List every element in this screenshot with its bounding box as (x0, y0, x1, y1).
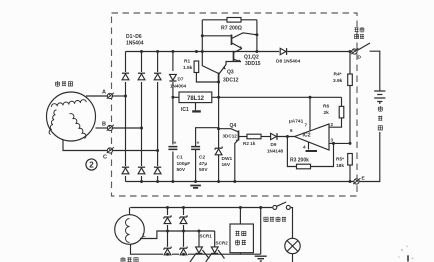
svg-text:R6: R6 (323, 104, 329, 110)
lamp (285, 238, 300, 262)
resistor R2 (247, 134, 261, 139)
diode D6 (153, 166, 162, 176)
wire B+ top rail (126, 51, 350, 53)
node R5 ground rail (349, 180, 352, 183)
wire R5 bottom (349, 165, 351, 182)
svg-text:B: B (102, 122, 106, 128)
svg-text:R1: R1 (184, 59, 190, 65)
resistor R6 (339, 106, 344, 118)
diode DL4 (179, 247, 188, 257)
wire R3 loop (287, 137, 333, 167)
node return leg2 (182, 253, 185, 256)
node ground drop (259, 206, 262, 209)
node R7 left base (201, 34, 204, 37)
svg-text:+: + (174, 141, 177, 147)
label Q1,Q2 3DD15 (244, 55, 261, 67)
node Q1 collector (255, 33, 258, 36)
svg-text:50V: 50V (199, 167, 208, 173)
diode DL2 (179, 215, 188, 225)
svg-text:Q3: Q3 (227, 70, 234, 76)
wire coil bottom return (131, 244, 261, 254)
lighting switch contacts (273, 202, 291, 209)
node C2 ground (194, 180, 197, 183)
switch contact wire (370, 51, 380, 91)
svg-text:3DD15: 3DD15 (245, 61, 261, 67)
svg-text:D8 1N5404: D8 1N5404 (276, 59, 301, 65)
svg-text:D9: D9 (271, 142, 277, 147)
svg-text:C2: C2 (199, 155, 205, 161)
svg-text:47µ: 47µ (199, 161, 207, 167)
pin 2 wire (329, 118, 342, 127)
node Q4 emitter ground (233, 180, 236, 183)
wire R6 top (341, 97, 343, 106)
node reg out (217, 96, 220, 99)
node pin7 supply (309, 96, 312, 99)
regulator IC1 78L12 box (179, 92, 212, 103)
svg-text:50V: 50V (177, 167, 186, 173)
label lighting magneto 磁电机 (121, 257, 138, 262)
diode D1 (121, 72, 130, 82)
wire bridge leg B (141, 52, 143, 182)
terminal E (353, 178, 360, 184)
svg-text:C1: C1 (177, 155, 183, 161)
svg-text:R5*: R5* (336, 157, 344, 163)
label R6 2k (323, 104, 329, 116)
node inverting input (286, 135, 289, 138)
wire bridge leg A (125, 52, 127, 182)
label D7 1N4004 (170, 77, 187, 89)
node R3 feedback (332, 142, 335, 145)
svg-text:6: 6 (290, 128, 293, 133)
label R7 200ohm (221, 26, 242, 32)
svg-text:16V: 16V (222, 162, 231, 168)
node Q4 collector (217, 127, 220, 130)
label DW1 16V (222, 156, 233, 168)
lighting diode leg 2 (183, 208, 185, 255)
wire bottom ground rail (126, 181, 354, 183)
wire phase C from magneto (63, 140, 107, 151)
pin 4 wire and ground (306, 142, 318, 152)
wire control box top (239, 208, 241, 225)
wire right branch R4 (349, 52, 351, 144)
svg-text:R3 200k: R3 200k (290, 158, 309, 164)
switch lever (358, 43, 371, 50)
wire R7 loop left vertical (202, 20, 218, 74)
thyristor SCR1 (190, 231, 209, 262)
lighting diode leg 1 (167, 208, 169, 255)
svg-text:SCR2: SCR2 (216, 241, 229, 246)
svg-text:3.9k: 3.9k (333, 78, 343, 84)
wire bridge leg C (157, 52, 159, 182)
transistor Q1 (202, 33, 257, 49)
svg-text:4: 4 (303, 145, 306, 150)
node top wire leg2 (182, 206, 185, 209)
node phase C (156, 149, 159, 152)
wire control box bottom (239, 253, 241, 255)
wire ground drop (260, 208, 262, 255)
svg-text:IC1: IC1 (181, 107, 189, 113)
wire Q3 down to DW1 (218, 83, 220, 148)
node top wire leg1 (166, 206, 169, 209)
svg-text:µA741: µA741 (289, 119, 304, 125)
svg-text:2: 2 (89, 160, 94, 169)
label lighting switch 照明开关 (264, 217, 286, 222)
label R5 18k (336, 157, 344, 170)
capacitor C1 (168, 141, 179, 152)
svg-text:100µF: 100µF (177, 161, 191, 167)
magneto label 磁电机 (55, 81, 72, 86)
resistor R5 (348, 154, 353, 166)
label D1~D6 1N5404 (126, 34, 144, 47)
svg-text:3: 3 (331, 138, 334, 143)
label C1 100uF 50V (177, 155, 191, 174)
wire R7 right vertical (256, 20, 258, 52)
control circuit box 控制电路 (230, 224, 253, 253)
diode D2 (137, 72, 146, 82)
wire D9 to opamp (277, 136, 295, 138)
label R1 1.5k (183, 59, 193, 71)
svg-text:2: 2 (331, 122, 334, 127)
node phase A (124, 95, 127, 98)
svg-text:+: + (197, 141, 200, 147)
node rail bottom C (156, 180, 159, 183)
svg-text:3DC12: 3DC12 (223, 134, 238, 139)
svg-text:2k: 2k (324, 110, 330, 116)
diode D7 (168, 71, 177, 82)
svg-text:1N4148: 1N4148 (267, 148, 284, 153)
pin 7 wire (309, 97, 311, 131)
stray scan speckles (398, 246, 413, 260)
node rail bottom B (140, 180, 143, 183)
node DW1 ground (217, 180, 220, 183)
node R4 R5 junction (349, 142, 352, 145)
node R4 top (349, 50, 352, 53)
svg-text:1N4004: 1N4004 (170, 84, 187, 89)
wire phase B inside box (113, 127, 142, 129)
node D7 rail (171, 50, 174, 53)
wire coil tap to middle (140, 231, 215, 239)
svg-text:A: A (102, 90, 106, 96)
svg-text:D1~D6: D1~D6 (126, 34, 142, 40)
svg-text:Q4: Q4 (230, 123, 237, 129)
svg-text:18k: 18k (336, 163, 344, 169)
pin 3 wire (329, 142, 350, 144)
node return leg1 (166, 253, 169, 256)
magneto winding top (51, 100, 86, 107)
wire D7 C1 branch (172, 52, 174, 182)
resistor R7 (227, 18, 241, 23)
terminal C (107, 147, 114, 153)
node C1 ground (171, 180, 174, 183)
node rail top B (140, 50, 143, 53)
diode D5 (137, 166, 146, 176)
transistor Q2 (234, 49, 243, 62)
node middle leg2 (182, 230, 185, 233)
transistor Q3 (219, 62, 241, 84)
label Q3 3DC12 (223, 70, 239, 84)
wire phase A inside box (113, 95, 126, 97)
magneto winding left (49, 110, 56, 135)
svg-text:D: D (358, 55, 362, 61)
node R1 rail (195, 50, 198, 53)
magneto winding right (70, 114, 86, 139)
svg-text:IC2: IC2 (303, 132, 311, 138)
svg-text:D7: D7 (178, 77, 184, 82)
svg-text:1.5k: 1.5k (183, 65, 193, 71)
diode DL1 (163, 215, 172, 225)
svg-text:SCR1: SCR1 (200, 234, 213, 239)
wire battery negative (359, 102, 380, 182)
svg-text:DW1: DW1 (222, 156, 233, 162)
node middle leg1 (166, 230, 169, 233)
node Q3 base (217, 81, 220, 84)
ground of IC1 (195, 103, 197, 111)
svg-text:1N5404: 1N5404 (126, 41, 144, 47)
wire phase C inside box (113, 150, 158, 152)
node SCR1 top (198, 230, 201, 233)
node R7 left rail (201, 50, 204, 53)
lighting coil winding (126, 219, 130, 243)
lighting coil circle (115, 215, 145, 245)
node D8 rail (255, 50, 258, 53)
svg-text:E: E (362, 176, 366, 182)
node D7 out (171, 96, 174, 99)
label C2 47u 50V (199, 155, 208, 174)
resistor R3 (297, 164, 311, 169)
node rail top C (156, 50, 159, 53)
wire 78L12 input (173, 96, 179, 98)
op-amp IC2 uA741 (295, 124, 330, 150)
label power switch 电源开关 (355, 27, 365, 39)
svg-text:R4*: R4* (334, 72, 342, 78)
ground symbol bottom section (255, 256, 267, 261)
wire coil top (129, 208, 131, 215)
svg-text:Q1,Q2: Q1,Q2 (244, 55, 259, 61)
diode D9 (271, 133, 277, 140)
diode D3 (153, 72, 162, 82)
wire DW1 to ground rail (218, 155, 220, 182)
magneto M1 circle (47, 92, 96, 141)
diode DL3 (163, 247, 172, 257)
label R4 3.9k (333, 72, 343, 85)
wire phase B from magneto (96, 127, 108, 129)
svg-text:R2 1k: R2 1k (243, 141, 256, 146)
terminal D (351, 48, 358, 54)
svg-text:R7 200Ω: R7 200Ω (221, 26, 242, 32)
circled number 2 (86, 159, 97, 170)
capacitor C2 (191, 128, 219, 182)
wire +12V rail (212, 96, 342, 98)
terminal A (107, 93, 114, 99)
svg-text:C: C (103, 155, 107, 161)
node control box top (239, 206, 242, 209)
node phase B (140, 127, 143, 130)
ground symbol bottom rail (190, 186, 201, 188)
wire phase A from magneto (86, 95, 107, 97)
stray scan mark (407, 255, 409, 261)
resistor R1 (194, 61, 219, 82)
wire R7 top (202, 19, 257, 21)
thyristor SCR2 (206, 231, 225, 262)
diode D8 (280, 48, 286, 55)
svg-text:78L12: 78L12 (187, 96, 205, 102)
terminal B (107, 125, 114, 131)
diode D4 (121, 166, 130, 176)
bottom section top wire (130, 208, 292, 239)
svg-text:3DC12: 3DC12 (223, 78, 239, 84)
wire R2 to D9 (261, 136, 270, 138)
label battery 蓄电池 (378, 106, 383, 130)
dashed enclosure box (112, 13, 358, 196)
transistor Q4 (219, 129, 247, 182)
zener DW1 (215, 147, 222, 155)
svg-text:7: 7 (305, 123, 308, 128)
resistor R4 (348, 74, 353, 86)
battery plates (374, 91, 385, 102)
